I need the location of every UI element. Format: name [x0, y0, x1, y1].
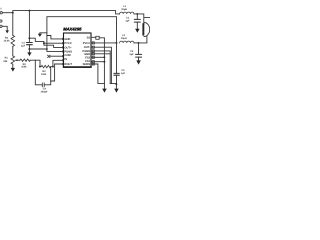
inductor L2 [120, 34, 134, 43]
wire rail1 [13, 11, 120, 14]
node H junction [46, 48, 48, 50]
IC U1 MAX4295 [63, 27, 91, 68]
ground [11, 68, 15, 72]
svg-text:1μF: 1μF [21, 45, 26, 48]
svg-text:PVCC: PVCC [83, 42, 91, 45]
capacitor C5 [114, 43, 126, 84]
svg-text:GND: GND [64, 38, 70, 41]
speaker LS1 [139, 22, 150, 43]
terminal J2 [0, 20, 2, 22]
pin ticks left [62, 38, 64, 65]
node B junction [28, 10, 30, 12]
wire SS [91, 37, 104, 88]
wire [2, 12, 12, 14]
jumper X mark [48, 55, 50, 57]
wire [30, 60, 40, 66]
svg-text:1μF: 1μF [125, 20, 130, 23]
svg-text:1μF: 1μF [129, 53, 134, 56]
svg-text:100k: 100k [41, 73, 47, 76]
node K junction [138, 42, 140, 44]
node A junction [12, 12, 14, 14]
node FS2 junction [103, 56, 105, 58]
terminal J1 [0, 12, 2, 14]
ground [114, 89, 119, 93]
wire REF pin [51, 64, 64, 81]
svg-text:ROUT: ROUT [64, 63, 72, 66]
ground [136, 60, 141, 64]
svg-text:IN: IN [64, 58, 67, 61]
svg-text:10μH: 10μH [121, 37, 127, 40]
wire GND pin staircase [47, 36, 64, 39]
pin ticks right [92, 42, 94, 44]
svg-text:PVCC: PVCC [64, 42, 72, 45]
capacitor C4 [35, 60, 50, 93]
svg-text:100pF: 100pF [41, 90, 48, 93]
svg-text:SS: SS [87, 36, 91, 39]
wire PVCC jog [29, 38, 63, 43]
node VDD terminal label [0, 8, 2, 11]
node D junction [52, 66, 54, 68]
svg-text:COM: COM [64, 54, 71, 57]
wire ground bus [29, 48, 47, 50]
svg-text:SHDN: SHDN [83, 63, 91, 66]
node I junction [116, 42, 118, 44]
svg-text:25k: 25k [3, 60, 8, 63]
svg-text:100k: 100k [21, 66, 27, 69]
inductor L1 [120, 5, 134, 14]
wire GND right [91, 54, 116, 89]
svg-text:PGND: PGND [64, 50, 72, 53]
svg-text:15.0k: 15.0k [4, 40, 11, 43]
node F junction [28, 48, 30, 50]
ground [135, 29, 140, 33]
wire PGND pin [47, 36, 64, 52]
ground stub [40, 32, 47, 35]
node J junction [136, 13, 138, 15]
wire PVCC right [91, 42, 117, 44]
capacitor C3 [21, 11, 32, 53]
svg-text:OUT-: OUT- [84, 46, 91, 49]
wire [12, 64, 14, 67]
wire PGND right [91, 51, 110, 84]
pin labels left [64, 38, 72, 66]
wire [12, 46, 14, 56]
terminal J3 [0, 25, 2, 27]
wire to IN pin [53, 60, 64, 66]
wire OUT+ to speaker [134, 14, 150, 25]
wire [12, 13, 14, 36]
svg-text:FS2: FS2 [85, 56, 90, 59]
svg-text:1μF: 1μF [121, 72, 126, 75]
wire SHDN [91, 64, 104, 83]
wire OUT- right [91, 47, 111, 83]
resistor R3 [11, 35, 15, 46]
ground [102, 89, 107, 93]
svg-text:5V: 5V [0, 8, 2, 11]
pin SS box [96, 36, 99, 39]
potentiometer R1 [11, 56, 15, 64]
resistor R4 [40, 65, 52, 67]
wire wiper to R2 [18, 59, 20, 61]
pin labels right [82, 36, 90, 66]
wire OUT+ step [44, 43, 64, 47]
ground [27, 52, 31, 56]
node FS1 junction [103, 61, 105, 63]
wire FS1 [91, 61, 104, 63]
node C junction [39, 66, 41, 68]
node G junction [43, 42, 45, 44]
wire COM pin [50, 55, 63, 57]
svg-text:MAX4295: MAX4295 [63, 27, 82, 32]
wire [2, 26, 7, 30]
capacitor C2 [129, 43, 141, 60]
svg-text:OUT+: OUT+ [64, 46, 72, 49]
node L junction [115, 83, 117, 85]
resistor R2 [20, 59, 30, 61]
svg-text:10μH: 10μH [121, 8, 127, 11]
ground [38, 34, 42, 37]
node E junction [28, 37, 30, 39]
ground [5, 30, 9, 33]
wire rail2 [47, 17, 117, 43]
wire L2 out [134, 42, 139, 44]
wire FS2 [91, 56, 104, 58]
capacitor C1 [125, 14, 140, 29]
